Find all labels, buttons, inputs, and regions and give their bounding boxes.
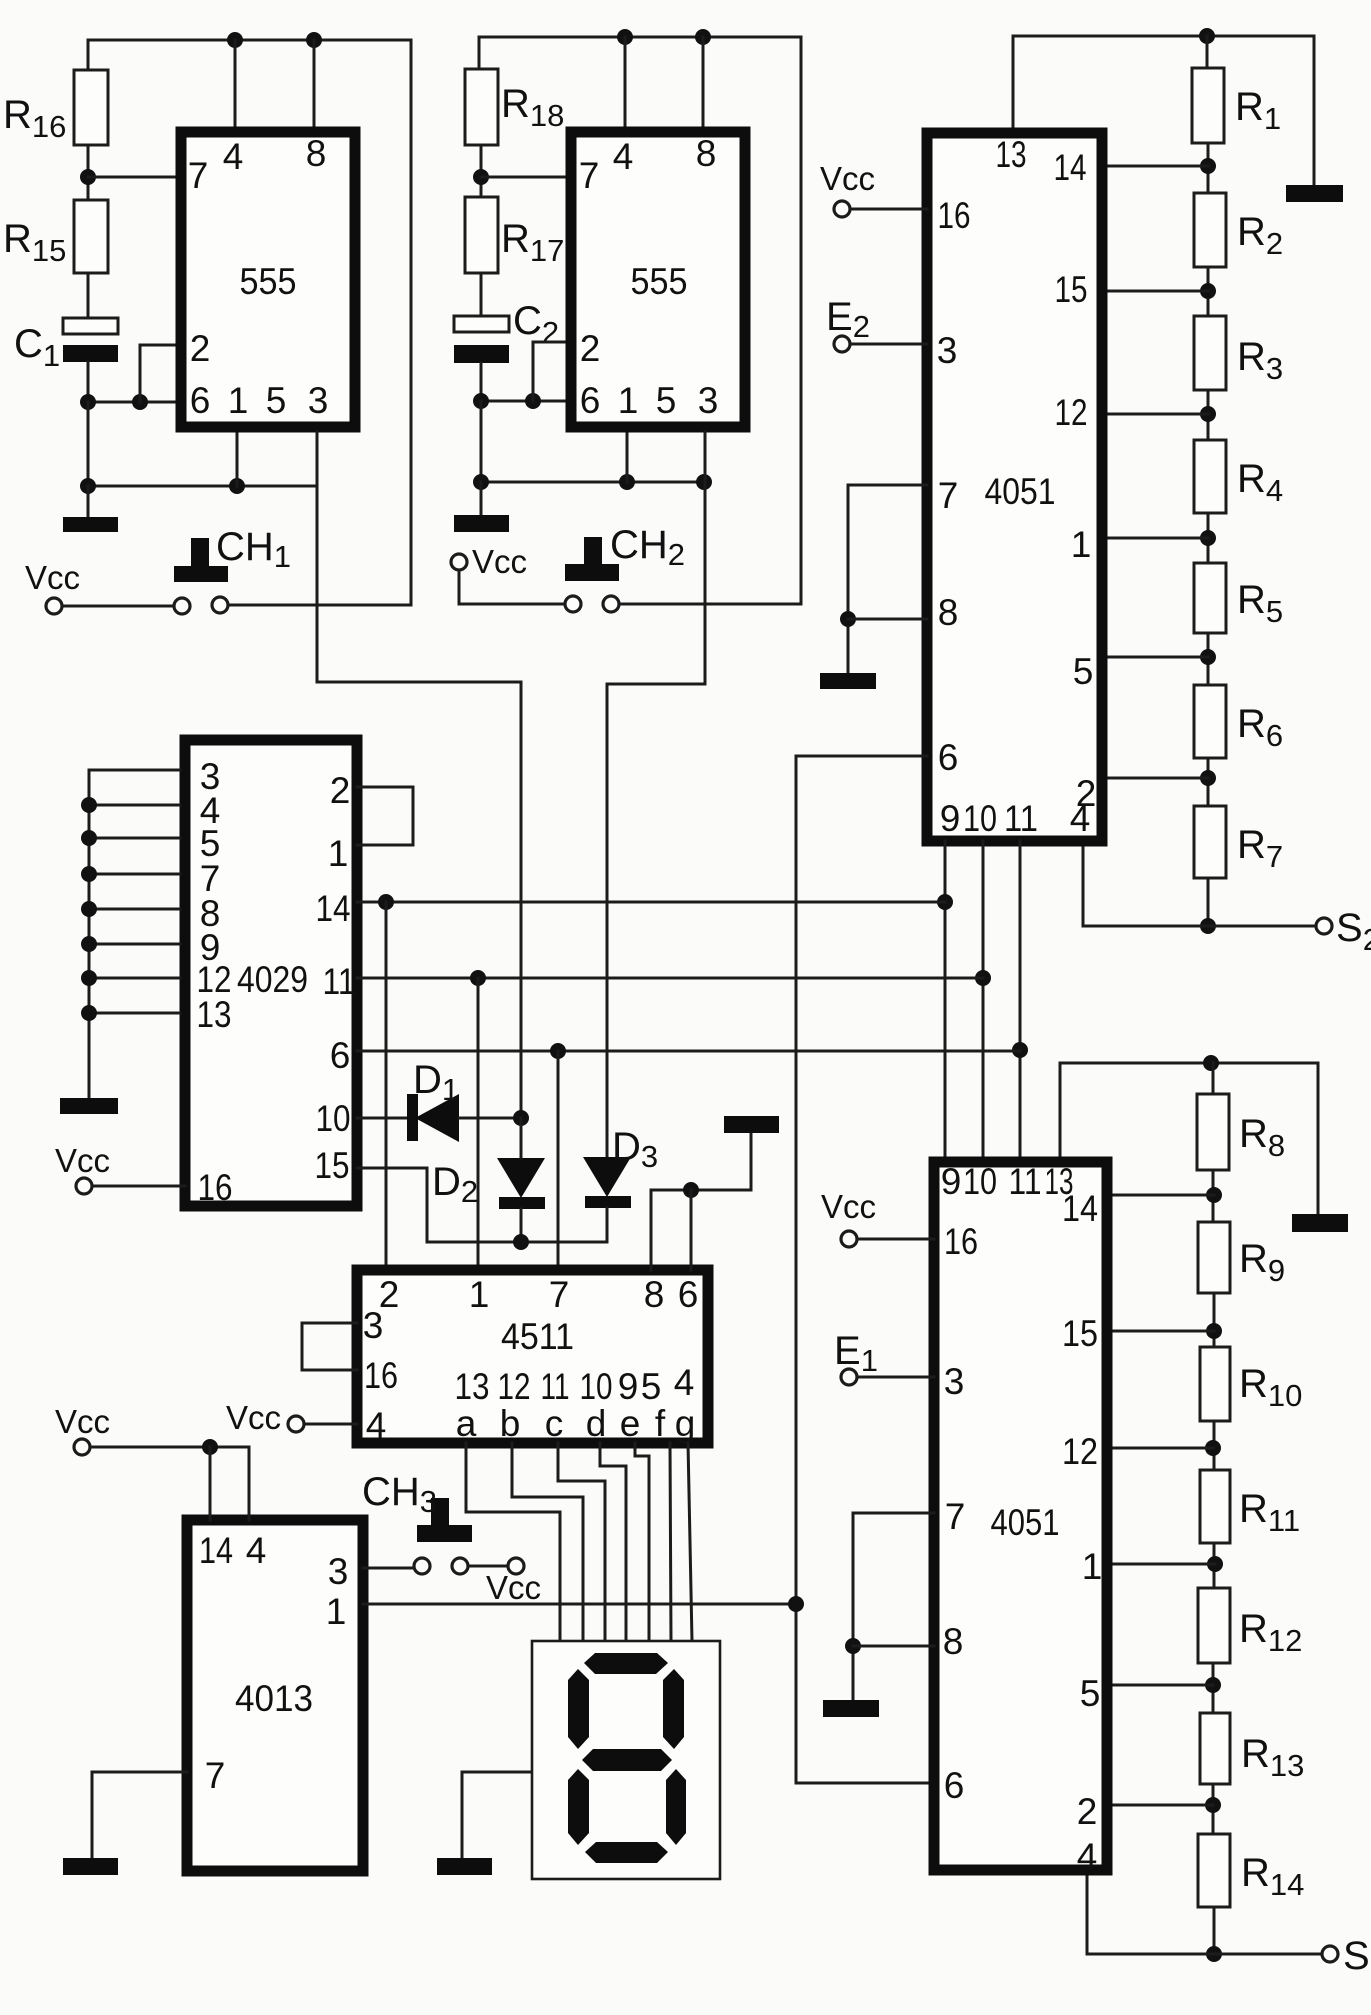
wire: pin 15 tap — [1107, 290, 1208, 293]
wire: branch down to 4511 pin 2 — [385, 902, 388, 1270]
svg-text:3: 3 — [937, 330, 958, 371]
resistor R18 — [465, 69, 498, 145]
wire: R1 top stub — [1206, 36, 1209, 68]
wire: right rail down to CH2 switch — [800, 37, 803, 604]
svg-text:Vcc: Vcc — [820, 160, 875, 197]
wire: pin 7 to ground stem — [848, 485, 927, 673]
wire: pin 1 stub — [626, 430, 629, 482]
svg-text:5: 5 — [266, 380, 287, 421]
svg-text:9: 9 — [941, 1161, 962, 1202]
wire: pin 1 tap — [1107, 1563, 1215, 1566]
wire: rail to R16 top — [87, 40, 90, 70]
svg-text:1: 1 — [1071, 524, 1092, 565]
junction on rail at pin 8 — [306, 32, 322, 48]
wire: pin 8 to stem — [853, 1645, 934, 1648]
svg-text:1: 1 — [469, 1274, 490, 1315]
wire: R4-R5 link — [1207, 513, 1210, 563]
Vcc terminal (CH2) — [451, 554, 467, 570]
wire: Vcc to pins 14/4 — [90, 1447, 249, 1520]
svg-text:f: f — [655, 1403, 666, 1444]
Vcc terminal (4511 pin4) — [288, 1416, 304, 1432]
junction on rail at pin 4 — [617, 29, 633, 45]
wire: segment a to display — [466, 1443, 560, 1641]
CH3 terminal middle — [452, 1558, 468, 1574]
ground symbol (4051#2 pins 7/8) — [823, 1700, 879, 1717]
wire: pin 2 tap — [1107, 1804, 1213, 1807]
junction R18/R17/pin7 — [473, 169, 489, 185]
wire: pin 8 to stem — [848, 618, 927, 621]
junction pin2 branch — [525, 393, 541, 409]
wire: R8-R9 link — [1212, 1170, 1215, 1222]
svg-text:Vcc: Vcc — [55, 1403, 110, 1440]
svg-text:10: 10 — [580, 1366, 613, 1407]
svg-text:6: 6 — [190, 380, 211, 421]
resistor R8 — [1197, 1094, 1229, 1170]
wire: segment f to display — [670, 1443, 671, 1641]
svg-text:3: 3 — [944, 1361, 965, 1402]
svg-text:c: c — [545, 1403, 564, 1444]
junction rail/R1 — [1199, 28, 1215, 44]
wire: pin 11 line to 4051 pin 10 — [357, 977, 983, 980]
svg-text:11: 11 — [1004, 798, 1038, 839]
CH3 terminal left — [414, 1558, 430, 1574]
svg-text:3: 3 — [698, 380, 719, 421]
wire: pin 7 to ground — [92, 1772, 187, 1858]
wire: segment d to display — [600, 1443, 626, 1641]
wire: CH3 middle to right terminal — [468, 1565, 508, 1568]
svg-text:6: 6 — [944, 1765, 965, 1806]
svg-text:12: 12 — [1062, 1431, 1098, 1472]
svg-text:7: 7 — [549, 1274, 570, 1315]
junction S1 line — [1206, 1946, 1222, 1962]
Vcc terminal (4051#1 pin16) — [834, 201, 850, 217]
junction D1 / pin3-line — [513, 1110, 529, 1126]
CH2 terminal left — [565, 596, 581, 612]
resistor R1 — [1192, 68, 1224, 143]
wire: rail to R18 top — [478, 37, 481, 69]
wire: branch to pin 14 — [209, 1447, 212, 1520]
svg-text:Vcc: Vcc — [25, 559, 80, 596]
svg-text:14: 14 — [199, 1530, 233, 1571]
svg-text:10: 10 — [316, 1098, 351, 1139]
ground symbol (4511 pins 8/6) — [724, 1116, 779, 1133]
svg-text:555: 555 — [631, 261, 688, 302]
svg-text:12: 12 — [1055, 392, 1088, 433]
wire: pin 14 tap — [1107, 165, 1208, 168]
wire: node row to pin 6 — [88, 401, 176, 404]
svg-text:5: 5 — [641, 1366, 662, 1407]
terminal S1 — [1322, 1946, 1338, 1962]
svg-text:g: g — [675, 1403, 696, 1444]
svg-text:2: 2 — [190, 328, 211, 369]
resistor R10 — [1200, 1347, 1230, 1421]
svg-text:8: 8 — [943, 1621, 964, 1662]
wire: R8 top rail to pin 13 and ground — [1060, 1062, 1318, 1065]
terminal E2 — [834, 336, 850, 352]
svg-text:1: 1 — [326, 1591, 347, 1632]
capacitor C1 — [63, 318, 118, 334]
svg-text:Vcc: Vcc — [55, 1142, 110, 1179]
junction pin 15 tap — [1206, 1323, 1222, 1339]
svg-text:15: 15 — [315, 1145, 350, 1186]
svg-text:e: e — [620, 1403, 641, 1444]
wire: node row to pin 6 — [481, 400, 566, 403]
wire: R18 to R17 — [480, 145, 483, 197]
junction pin 12 tap — [1205, 1440, 1221, 1456]
wire: ground stem — [750, 1133, 753, 1190]
IC 4051 #2 box — [934, 1162, 1107, 1870]
wire: Vcc to pin 4 — [304, 1423, 357, 1426]
svg-text:4: 4 — [223, 136, 244, 177]
resistor R2 — [1194, 193, 1226, 267]
IC 4013 box — [187, 1520, 363, 1871]
wire: pin 8 stub — [702, 37, 705, 127]
wire: pin 12 tap — [1107, 413, 1208, 416]
svg-text:3: 3 — [328, 1551, 349, 1592]
wire: pin 13 stub — [1012, 36, 1015, 128]
wire: pins 2-1 feedback loop — [357, 787, 413, 845]
ground symbol (display) — [437, 1858, 492, 1875]
junction pin 14 branch — [378, 894, 394, 910]
resistor R14 — [1198, 1834, 1230, 1907]
junction bus pin 9 — [81, 936, 97, 952]
wire: pin 15 jog to diode row — [357, 1168, 607, 1242]
wire: pin 9 vertical down to 4051#2 — [944, 841, 947, 1162]
resistor R6 — [1194, 685, 1226, 758]
wire: E1 to pin 3 — [857, 1376, 934, 1379]
junction Vcc branch — [202, 1439, 218, 1455]
display segment a — [584, 1653, 668, 1674]
junction pin 5 tap — [1200, 649, 1216, 665]
junction pin 15 tap — [1200, 283, 1216, 299]
junction pin 9 / 4029 pin 14 line — [937, 894, 953, 910]
wire: segment g to display — [688, 1443, 692, 1641]
junction pin 14 tap — [1206, 1187, 1222, 1203]
ground symbol (4051#1 pins 7/8) — [820, 673, 876, 689]
IC 4511 box — [357, 1270, 708, 1443]
wire: R17 to C2 — [480, 273, 483, 316]
wire: left bus vertical — [88, 770, 91, 1098]
pushbutton CH1 — [191, 538, 209, 567]
resistor R12 — [1198, 1588, 1230, 1663]
junction pin 8 on stem — [845, 1638, 861, 1654]
junction bus pin 5 — [81, 830, 97, 846]
svg-text:4: 4 — [1070, 798, 1091, 839]
wire: ground stem — [1317, 1063, 1320, 1214]
svg-text:7: 7 — [188, 155, 209, 196]
svg-text:13: 13 — [197, 994, 232, 1035]
IC 4051 #1 box — [927, 133, 1102, 841]
Vcc terminal (CH1) — [46, 598, 62, 614]
wire: pin 12 tap — [1107, 1447, 1213, 1450]
display segment c — [666, 1769, 686, 1845]
diode D3 — [583, 1157, 631, 1197]
wire: branch down to 4511 pin 7 — [557, 1051, 560, 1270]
wire: pin 14 line to 4051 pin 9 — [357, 901, 945, 904]
svg-text:14: 14 — [1054, 147, 1087, 188]
junction ground row pin1 — [229, 478, 245, 494]
svg-text:3: 3 — [363, 1305, 384, 1346]
wire: pin 10 vertical down to 4051#2 — [982, 841, 985, 1162]
wire: pin 8 up to ground link — [651, 1190, 751, 1270]
wire: Vcc to pin 16 — [850, 208, 927, 211]
wire: R6-R7 link — [1207, 758, 1210, 806]
wire: 555#1 Vcc top rail — [88, 39, 411, 42]
wire: R15 to C1 — [87, 273, 90, 318]
wire: pin 2 jog — [533, 342, 566, 401]
svg-text:16: 16 — [944, 1221, 978, 1262]
junction pin 8 on stem — [840, 611, 856, 627]
wire: CH2 to right rail — [619, 603, 801, 606]
resistor R15 — [74, 200, 108, 273]
wire: D2 to bottom row — [520, 1209, 523, 1242]
resistor R16 — [74, 70, 108, 145]
wire: ground row — [481, 481, 705, 484]
wire: rail down to ground — [1313, 36, 1316, 185]
wire: segment e to display — [635, 1443, 649, 1641]
svg-text:15: 15 — [1062, 1313, 1098, 1354]
wire: pin 6 line to 4051 pin 11 — [357, 1050, 1020, 1053]
svg-text:Vcc: Vcc — [486, 1569, 541, 1606]
svg-text:7: 7 — [579, 155, 600, 196]
wire: pin 13 top rail — [1013, 35, 1314, 38]
pushbutton CH3 — [431, 1498, 449, 1526]
junction pin 10 / 4029 pin 11 line — [975, 970, 991, 986]
svg-text:9: 9 — [940, 798, 961, 839]
junction at C2 node — [473, 393, 489, 409]
junction pin 2 tap — [1205, 1797, 1221, 1813]
svg-text:6: 6 — [330, 1035, 351, 1076]
wire: R3-R4 link — [1207, 390, 1210, 440]
wire: pin 2 jog — [140, 345, 176, 402]
junction pin 6 branch — [550, 1043, 566, 1059]
wire: pin 4 down to S2 — [1083, 846, 1317, 926]
wire: pin 9 to bus — [89, 943, 180, 946]
svg-text:13: 13 — [996, 134, 1027, 175]
Vcc terminal (4013) — [74, 1439, 90, 1455]
svg-text:8: 8 — [938, 592, 959, 633]
svg-text:1: 1 — [328, 833, 349, 874]
Vcc terminal (4051#2 pin16) — [841, 1231, 857, 1247]
junction bus pin 4 — [81, 797, 97, 813]
CH3 terminal right (Vcc) — [508, 1558, 524, 1574]
svg-text:7: 7 — [945, 1496, 966, 1537]
capacitor C2 — [454, 316, 509, 332]
wire: pin 4 stub — [624, 37, 627, 127]
junction pin 1 line / long vertical — [788, 1596, 804, 1612]
7-segment display outline — [532, 1641, 720, 1879]
svg-text:10: 10 — [963, 798, 997, 839]
ground symbol (4013 pin7) — [63, 1858, 118, 1875]
junction pin 1 tap — [1200, 530, 1216, 546]
wire: pin 3 down and over to D3 column — [607, 432, 705, 1157]
svg-text:9: 9 — [618, 1366, 639, 1407]
svg-text:7: 7 — [938, 475, 959, 516]
wire: pin 5 to bus — [89, 837, 180, 840]
CH1 terminal left — [174, 598, 190, 614]
wire: display common to ground — [462, 1772, 532, 1858]
diode D2 — [497, 1158, 545, 1198]
svg-text:Vcc: Vcc — [472, 543, 527, 580]
wire: D3 to bottom row — [606, 1208, 609, 1242]
svg-text:6: 6 — [938, 737, 959, 778]
wire: Vcc to pin 16 — [92, 1185, 185, 1188]
svg-text:4029: 4029 — [237, 959, 308, 1000]
pushbutton CH2 — [584, 537, 602, 565]
junction pin 14 tap — [1200, 158, 1216, 174]
svg-text:4: 4 — [613, 136, 634, 177]
wire: pin 5 tap — [1107, 656, 1208, 659]
wire: CH1 to right rail — [228, 604, 411, 607]
junction R8 top — [1203, 1055, 1219, 1071]
CH2 terminal right — [603, 596, 619, 612]
svg-text:Vcc: Vcc — [226, 1399, 281, 1436]
wire: pin 15 tap — [1107, 1330, 1214, 1333]
wire: E2 to pin 3 — [850, 343, 927, 346]
svg-text:4051: 4051 — [991, 1502, 1060, 1543]
ground symbol (4029 bus) — [60, 1098, 118, 1114]
wire: pin 13 to bus — [89, 1012, 180, 1015]
resistor R17 — [465, 197, 498, 273]
svg-text:d: d — [586, 1403, 607, 1444]
wire: pin 12 to bus — [89, 977, 180, 980]
wire: ground stem — [87, 486, 90, 517]
wire: R8 top stub — [1212, 1063, 1215, 1094]
junction pin 11 / 4029 pin 6 line — [1012, 1042, 1028, 1058]
ground symbol (555#2) — [454, 515, 509, 532]
svg-text:5: 5 — [1073, 651, 1094, 692]
wire: pin 1 long line to 4051#2 pin 6 vertical — [363, 1603, 796, 1606]
wire: R2-R3 link — [1207, 267, 1210, 316]
svg-text:b: b — [500, 1403, 521, 1444]
ground symbol (R1 rail) — [1286, 185, 1343, 202]
svg-text:13: 13 — [455, 1366, 490, 1407]
wire: pin 14 tap — [1107, 1194, 1214, 1197]
junction bus pin 12 — [81, 970, 97, 986]
wire: pin 3 down and over to D1/D2 column — [317, 432, 521, 1118]
svg-text:4: 4 — [674, 1362, 695, 1403]
svg-text:4: 4 — [246, 1530, 267, 1571]
svg-text:11: 11 — [1009, 1161, 1042, 1202]
junction pin 12 tap — [1200, 406, 1216, 422]
CH1 terminal right — [212, 597, 228, 613]
junction pin 1 tap — [1207, 1556, 1223, 1572]
svg-text:4511: 4511 — [501, 1316, 574, 1357]
svg-text:8: 8 — [644, 1274, 665, 1315]
junction bus pin 13 — [81, 1005, 97, 1021]
svg-text:6: 6 — [678, 1274, 699, 1315]
svg-text:2: 2 — [330, 770, 351, 811]
resistor R13 — [1200, 1713, 1230, 1784]
display segment b — [663, 1669, 684, 1749]
wire: D1 to node — [459, 1117, 521, 1120]
svg-text:10: 10 — [963, 1161, 997, 1202]
junction pin 11 branch — [470, 970, 486, 986]
wire: C1 to node row — [87, 362, 90, 402]
svg-text:11: 11 — [541, 1366, 570, 1407]
junction diode row / D2 — [513, 1234, 529, 1250]
wire: pin 5 tap — [1107, 1684, 1213, 1687]
junction pin2 branch — [132, 394, 148, 410]
svg-text:Vcc: Vcc — [821, 1188, 876, 1225]
Vcc terminal (4029 pin16) — [76, 1178, 92, 1194]
wire: pin 6 stub — [690, 1190, 693, 1270]
svg-text:555: 555 — [240, 261, 297, 302]
svg-text:a: a — [456, 1403, 477, 1444]
resistor R5 — [1194, 563, 1226, 633]
svg-text:4051: 4051 — [985, 471, 1056, 512]
wire: 555#2 Vcc top rail — [479, 36, 801, 39]
svg-text:6: 6 — [580, 380, 601, 421]
wire: ground stem — [480, 482, 483, 515]
wire: D2 link — [520, 1118, 523, 1158]
terminal E1 — [841, 1369, 857, 1385]
svg-text:14: 14 — [316, 888, 351, 929]
wire: R5-R6 link — [1207, 633, 1210, 685]
wire: R10-R11 link — [1213, 1421, 1216, 1470]
resistor R3 — [1194, 316, 1226, 390]
ground symbol (555#1) — [63, 517, 118, 532]
wire: C2 to node row — [480, 363, 483, 401]
svg-text:3: 3 — [308, 380, 329, 421]
wire: node down to ground row — [87, 402, 90, 486]
svg-text:5: 5 — [1080, 1673, 1101, 1714]
junction at C1 node — [80, 394, 96, 410]
IC 4029 box — [185, 740, 357, 1206]
junction R16/R15/pin7 — [80, 169, 96, 185]
wire: right rail down to CH1 switch — [410, 40, 413, 605]
wire: branch down to 4511 pin 1 — [477, 978, 480, 1270]
op IC 555 #2 box — [571, 132, 745, 427]
wire: ground row — [88, 485, 317, 488]
wire: pin 2 tap — [1107, 777, 1208, 780]
ground symbol (R8 rail) — [1292, 1214, 1348, 1232]
wire: junction to pin 7 — [481, 176, 566, 179]
junction on rail at pin 8 — [695, 29, 711, 45]
wire: pin 4 stub — [234, 40, 237, 128]
wire: R1-R2 link — [1207, 143, 1210, 193]
wire: pin 11 vertical down to 4051#2 — [1019, 841, 1022, 1162]
display segment e — [568, 1769, 589, 1845]
wire: segment b to display — [512, 1443, 583, 1641]
junction pin 2 tap — [1200, 770, 1216, 786]
wire: pin 3 to CH3 — [363, 1567, 414, 1570]
wire: R11-R12 link — [1213, 1543, 1216, 1588]
svg-text:16: 16 — [198, 1167, 233, 1208]
wire: pin 4 down to S1 — [1087, 1870, 1323, 1954]
svg-text:4013: 4013 — [235, 1678, 313, 1719]
wire: node down to ground row — [480, 401, 483, 482]
svg-text:4: 4 — [1077, 1836, 1098, 1877]
wire: R12-R13 link — [1212, 1663, 1215, 1713]
junction ground row pin3 — [696, 474, 712, 490]
svg-text:16: 16 — [364, 1355, 398, 1396]
svg-text:12: 12 — [498, 1366, 531, 1407]
terminal S2 — [1316, 918, 1332, 934]
junction pin 6 / ground link — [683, 1182, 699, 1198]
svg-text:7: 7 — [205, 1755, 226, 1796]
resistor R9 — [1198, 1222, 1230, 1293]
resistor R7 — [1194, 806, 1226, 878]
junction on rail at pin 4 — [227, 32, 243, 48]
wire: pin 6 left and long vertical down to 4051#2 pin 6 — [796, 756, 934, 1783]
junction ground row pin1 — [619, 474, 635, 490]
junction bus pin 7 — [81, 866, 97, 882]
op IC 555 #1 box — [181, 132, 355, 427]
wire: R16 to R15 — [87, 145, 90, 200]
svg-text:8: 8 — [696, 133, 717, 174]
wire: pin 7 to ground stem — [853, 1513, 934, 1700]
